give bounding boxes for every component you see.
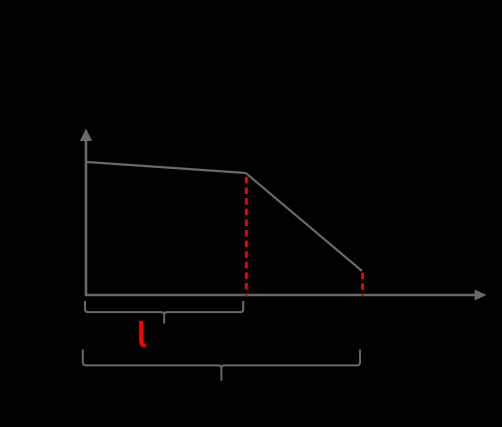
y-axis <box>80 129 92 296</box>
bracket 1 (dimension bracket under first segment) <box>85 301 243 324</box>
red dashed vertical 1 <box>245 177 248 296</box>
x-axis <box>85 290 487 301</box>
curve segment 2 (steep decline) <box>246 173 362 271</box>
red glyph (ell) <box>141 321 146 345</box>
curve segment 1 (shallow decline) <box>87 162 246 173</box>
red dashed vertical 2 <box>361 273 364 296</box>
bracket 2 (dimension bracket under both segments) <box>83 350 360 381</box>
